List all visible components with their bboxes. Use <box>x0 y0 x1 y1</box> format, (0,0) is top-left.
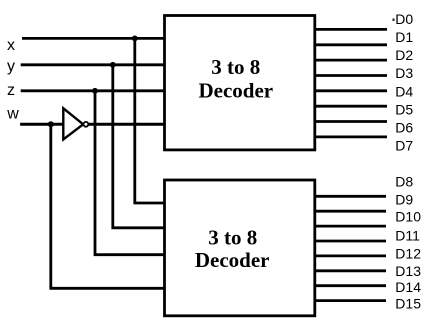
svg-text:3 to 8: 3 to 8 <box>208 225 257 249</box>
wire w input <box>20 123 62 126</box>
svg-text:x: x <box>7 37 15 54</box>
wire output D3 <box>314 74 387 77</box>
wire y tap to U2 <box>113 65 165 228</box>
svg-text:D13: D13 <box>395 263 421 279</box>
wire output D10 <box>314 225 386 228</box>
junction dot on wire x <box>132 36 138 42</box>
svg-text:D0: D0 <box>395 11 413 27</box>
wire output D5 <box>314 105 387 108</box>
svg-text:D1: D1 <box>395 29 413 45</box>
svg-text:Decoder: Decoder <box>195 248 270 272</box>
wire output D12 <box>314 254 386 257</box>
svg-text:D11: D11 <box>395 227 420 243</box>
wire output D4 <box>314 89 387 92</box>
wire w inverted to U1 <box>88 123 165 126</box>
wire output D0 <box>314 28 387 31</box>
wire output D13 <box>314 269 386 272</box>
wire output D1 <box>314 43 387 46</box>
svg-text:D5: D5 <box>395 101 413 117</box>
svg-text:D10: D10 <box>395 209 421 225</box>
wire output D7 <box>314 135 387 138</box>
junction dot on wire w <box>48 121 54 127</box>
svg-text:z: z <box>7 82 15 99</box>
svg-text:D4: D4 <box>395 83 413 99</box>
svg-text:D7: D7 <box>395 138 413 154</box>
svg-text:Decoder: Decoder <box>198 79 273 103</box>
wire output D6 <box>314 120 387 123</box>
junction dot on wire y <box>110 62 116 68</box>
junction dot on wire z <box>92 88 98 94</box>
wire output D15 <box>314 299 386 302</box>
wire x input <box>22 37 165 40</box>
wire z input <box>21 89 165 92</box>
wire z tap to U2 <box>95 91 165 255</box>
wire w tap to U2 <box>51 124 165 288</box>
svg-text:D6: D6 <box>395 120 413 136</box>
wire output D11 <box>314 240 386 243</box>
svg-text:3 to 8: 3 to 8 <box>211 55 260 79</box>
svg-text:D3: D3 <box>395 65 413 81</box>
wire output D8 <box>314 195 386 198</box>
wire output D14 <box>314 284 386 287</box>
wire output D2 <box>314 59 387 62</box>
svg-text:D9: D9 <box>395 191 413 207</box>
svg-text:D15: D15 <box>395 296 421 312</box>
inverter (NOT gate on w) <box>63 108 88 139</box>
svg-text:D2: D2 <box>395 47 413 63</box>
decoder U1 (3 to 8 Decoder, top) <box>165 16 315 150</box>
wire output D9 <box>314 210 386 213</box>
svg-text:D14: D14 <box>395 279 421 295</box>
svg-text:D8: D8 <box>395 174 413 190</box>
svg-text:D12: D12 <box>395 246 421 262</box>
decoder U2 (3 to 8 Decoder, bottom) <box>165 180 315 316</box>
svg-text:y: y <box>7 58 15 75</box>
svg-text:w: w <box>6 106 19 123</box>
wire y input <box>21 63 165 66</box>
stray dot before D0 <box>393 19 395 21</box>
wire x tap to U2 <box>135 38 165 203</box>
